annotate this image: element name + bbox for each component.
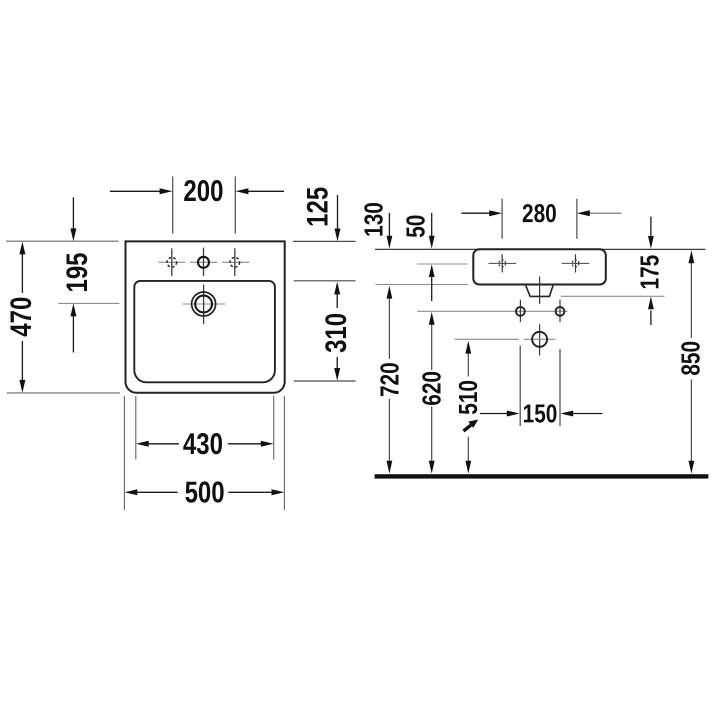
drain level extension line (455, 338, 519, 340)
dim 720 line upper (388, 298, 390, 359)
basin inner bowl (134, 281, 275, 382)
dim 200 line left (110, 190, 160, 192)
dim 620 line upper (431, 324, 433, 370)
svg-text:850: 850 (676, 341, 705, 376)
svg-text:620: 620 (417, 371, 446, 406)
svg-text:720: 720 (375, 362, 404, 397)
dim 310 line lower (336, 357, 338, 369)
side basin body (473, 249, 606, 284)
side drain circle (532, 332, 547, 347)
wall top line (375, 248, 706, 250)
faucet hole left dashed circle (167, 258, 177, 268)
basin bottom extension line (375, 284, 468, 286)
dim 510 line upper (467, 353, 469, 377)
dim 500 line left (137, 491, 178, 493)
dim 510 line lower (467, 437, 469, 462)
faucet hole right dashed circle (230, 258, 240, 268)
mounting hole right (559, 300, 561, 322)
dim 125 arrow (337, 195, 339, 229)
dim 195 extension line (58, 302, 119, 304)
dim 470 extension line bottom (7, 392, 120, 394)
svg-text:470: 470 (3, 297, 37, 337)
dim 470 line upper (21, 254, 23, 293)
faucet hole right centerlines (222, 261, 250, 263)
drain vertical centerline lower (539, 324, 541, 355)
side faucet cross right (562, 262, 590, 264)
dim 720 line lower (388, 399, 390, 462)
dim 850 line lower (690, 380, 692, 462)
svg-text:125: 125 (300, 187, 334, 227)
faucet hole left centerlines (158, 261, 185, 263)
dim 500 line right (228, 491, 271, 493)
drain outer circle (192, 292, 216, 316)
svg-text:510: 510 (454, 380, 483, 415)
dim 430 extension lines (135, 396, 137, 460)
drain direction arrow (464, 425, 472, 431)
svg-text:430: 430 (183, 426, 223, 460)
svg-text:150: 150 (523, 399, 558, 428)
dim 470 line lower (21, 341, 23, 380)
dim 200 line right (248, 190, 284, 192)
dim 850 line upper (690, 263, 692, 339)
dim 620 line lower (431, 407, 433, 462)
dim 470 extension line top (6, 240, 119, 242)
mounting hole left (519, 300, 521, 322)
mounting holes centerline (417, 310, 567, 312)
dim 310 line upper (336, 294, 338, 308)
dim 200 extension lines (172, 177, 174, 234)
dim 50 arrow bottom (431, 277, 433, 302)
floor line (375, 474, 709, 478)
drain vertical centerline upper (539, 277, 541, 304)
dim 175 arrow top (650, 217, 652, 237)
outlet trapezoid (526, 286, 553, 297)
dim 175 arrow bottom (650, 311, 652, 326)
svg-text:200: 200 (183, 173, 223, 207)
dim 500 extension lines (123, 396, 125, 510)
dim 280 extension lines (501, 199, 503, 239)
dim 430 line right (228, 443, 262, 445)
faucet level extension line (417, 263, 468, 265)
dim 430 line left (148, 443, 179, 445)
drain inner circle (195, 296, 212, 313)
side faucet cross left (488, 262, 516, 264)
drain cross arm (524, 338, 556, 340)
basin outer outline (126, 241, 285, 392)
dim 310 extension line top (293, 240, 356, 242)
svg-text:130: 130 (359, 202, 388, 237)
svg-text:175: 175 (635, 255, 664, 290)
svg-text:280: 280 (522, 199, 557, 228)
dim 310 extension line mid (294, 280, 356, 282)
dim 280 line right (590, 212, 622, 214)
dim 150 line left (480, 413, 508, 415)
outlet bottom extension line (561, 295, 665, 297)
dim 130 arrow (388, 213, 390, 236)
faucet hole center centerlines (190, 261, 218, 263)
dim 280 line left (461, 212, 490, 214)
faucet hole center circle (198, 257, 209, 268)
dim 150 extension lines (519, 346, 521, 427)
dim 195 arrow top (72, 197, 74, 229)
svg-text:195: 195 (59, 252, 93, 292)
dim 310 extension line bottom (294, 380, 356, 382)
dim 150 line right (573, 413, 603, 415)
svg-text:500: 500 (185, 475, 225, 509)
dim 195 arrow bottom (72, 316, 74, 353)
svg-text:50: 50 (401, 215, 430, 238)
svg-text:310: 310 (318, 313, 352, 353)
dim 50 arrow top (431, 213, 433, 236)
drain centerlines (182, 303, 225, 305)
